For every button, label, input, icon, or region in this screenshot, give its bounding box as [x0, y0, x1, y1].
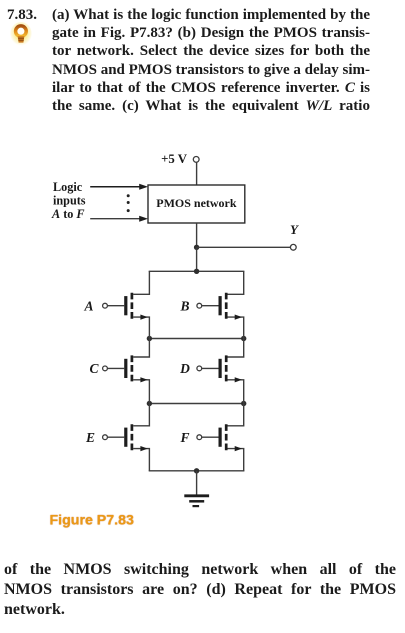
- svg-text:C: C: [89, 361, 99, 376]
- svg-text:inputs: inputs: [53, 193, 86, 207]
- problem number: [7, 6, 37, 24]
- junction on drain rail: [194, 269, 199, 274]
- transistor M_E (input E): [103, 404, 150, 471]
- transistor M_A (input A): [103, 271, 150, 338]
- junction left rail 2: [147, 401, 152, 406]
- wire PMOS network to node Y: [196, 223, 198, 247]
- svg-text:A to F: A to F: [51, 207, 85, 221]
- svg-text:Logic: Logic: [53, 180, 83, 194]
- logic inputs label: [51, 180, 86, 221]
- problem statement: [52, 6, 370, 115]
- junction on source rail: [194, 468, 199, 473]
- ellipsis A..F: [127, 194, 130, 212]
- input arrow bottom: [90, 216, 148, 222]
- transistor M_C (input C): [103, 339, 150, 404]
- transistor M_D (input D): [197, 339, 244, 404]
- ground: [184, 496, 209, 506]
- wire node Y to drain rail: [196, 247, 198, 271]
- svg-text:Figure P7.83: Figure P7.83: [50, 512, 134, 528]
- PMOS network block: [148, 185, 245, 223]
- drain rail of A,B: [149, 270, 245, 272]
- +5 V supply terminal: [193, 157, 199, 163]
- svg-text:PMOS network: PMOS network: [156, 196, 237, 210]
- svg-text:D: D: [179, 361, 190, 376]
- junction right rail 1: [241, 336, 246, 341]
- design-problem lightbulb icon: [10, 22, 32, 46]
- svg-text:E: E: [85, 430, 95, 445]
- rail between A,B sources and C,D drains: [149, 338, 245, 340]
- junction node Y: [194, 245, 199, 250]
- output terminal Y: [290, 244, 296, 250]
- svg-text:B: B: [179, 299, 189, 314]
- svg-text:+5 V: +5 V: [161, 152, 188, 166]
- transistor M_B (input B): [197, 271, 244, 338]
- junction right rail 2: [241, 401, 246, 406]
- svg-text:Y: Y: [290, 222, 299, 237]
- transistor M_F (input F): [197, 404, 244, 471]
- junction left rail 1: [147, 336, 152, 341]
- wire +5V to PMOS network: [196, 162, 198, 185]
- wire source rail to ground: [196, 471, 198, 495]
- continuation text: [4, 560, 396, 621]
- source rail of E,F: [149, 470, 245, 472]
- input arrow top: [90, 184, 148, 190]
- svg-text:F: F: [179, 430, 189, 445]
- svg-text:A: A: [83, 299, 93, 314]
- wire node Y to output terminal: [197, 246, 291, 248]
- rail between C,D sources and E,F drains: [149, 403, 245, 405]
